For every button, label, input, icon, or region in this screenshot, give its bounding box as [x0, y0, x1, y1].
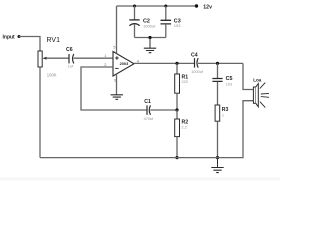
wire top power rail	[117, 5, 197, 7]
wire R1 to node A	[176, 93, 178, 110]
resistor R2	[175, 119, 189, 137]
wire R3 to bottom rail	[217, 121, 219, 157]
capacitor C6	[66, 47, 74, 68]
svg-text:12v: 12v	[203, 4, 212, 10]
wire pin3 to ground	[116, 74, 118, 95]
capacitor C5	[212, 76, 232, 86]
resistor R1	[175, 74, 189, 93]
svg-text:103: 103	[174, 23, 181, 28]
node junction C2/top rail	[133, 5, 136, 8]
svg-text:1: 1	[222, 114, 224, 118]
wire C2 to ground link	[134, 24, 136, 38]
wire R2 to bottom rail	[176, 137, 178, 158]
svg-text:C5: C5	[226, 76, 233, 82]
resistor R3	[215, 105, 228, 121]
svg-text:2.2: 2.2	[182, 125, 187, 129]
svg-text:C1: C1	[144, 99, 151, 105]
wire pin2 feedback loop	[81, 67, 147, 110]
separator line (bottom of schematic area)	[0, 178, 280, 181]
svg-text:220: 220	[182, 80, 188, 84]
speaker Loa	[253, 78, 269, 108]
wire input to RV1 top	[19, 37, 40, 52]
svg-text:Loa: Loa	[253, 78, 262, 83]
wire RV1 wiper to C6	[46, 57, 69, 59]
svg-text:1000uf: 1000uf	[191, 70, 204, 74]
node 12v terminal	[195, 4, 212, 10]
node junction output/R1	[175, 62, 178, 65]
svg-text:C4: C4	[191, 52, 198, 58]
node junction C3/top rail	[164, 5, 167, 8]
wire op-amp output to C4	[134, 62, 194, 64]
capacitor C1	[144, 99, 154, 121]
node junction ground/bottom rail	[216, 156, 219, 159]
wire C4 to speaker corner	[198, 62, 243, 64]
wire C5 to R3	[217, 82, 219, 105]
ground (under C2/C3)	[144, 38, 156, 53]
wire speaker top lead	[243, 63, 253, 89]
wire output node to R1	[176, 63, 178, 74]
wire speaker bottom lead to bottom rail	[40, 101, 253, 158]
op-amp U1 2003	[104, 45, 140, 83]
wire ground link C2-C3	[135, 37, 166, 39]
node junction ground link	[148, 36, 151, 39]
capacitor C3	[161, 18, 182, 28]
node input terminal	[3, 35, 21, 41]
wire pin5 to top rail	[116, 6, 118, 54]
capacitor C2	[129, 18, 156, 28]
svg-text:Input: Input	[3, 35, 16, 41]
wire C1 to node A	[150, 109, 177, 111]
svg-text:RV1: RV1	[47, 37, 61, 44]
wire C6 to pin 1	[74, 57, 114, 59]
wire node A to R2	[176, 110, 178, 119]
svg-text:2003: 2003	[120, 61, 129, 66]
wire C3 to ground link	[165, 24, 167, 38]
wire rail to C3	[165, 6, 167, 20]
svg-text:1000uf: 1000uf	[143, 23, 156, 28]
capacitor C4	[191, 52, 204, 74]
svg-text:103: 103	[226, 82, 232, 86]
svg-text:1uf: 1uf	[68, 65, 74, 69]
svg-text:C6: C6	[66, 47, 73, 53]
svg-text:470uf: 470uf	[144, 117, 154, 121]
svg-text:100K: 100K	[47, 73, 57, 78]
wire rail to C2	[134, 6, 136, 20]
wire RV1 bottom to bottom rail	[39, 67, 41, 158]
ground (bottom rail)	[211, 158, 223, 173]
node junction C5	[216, 62, 219, 65]
wire node to C5	[217, 63, 219, 78]
ground (op-amp pin 3)	[111, 95, 123, 100]
svg-text:R3: R3	[222, 107, 229, 113]
potentiometer RV1	[38, 37, 60, 78]
node junction R2/bottom rail	[175, 156, 178, 159]
node A junction	[175, 108, 178, 111]
